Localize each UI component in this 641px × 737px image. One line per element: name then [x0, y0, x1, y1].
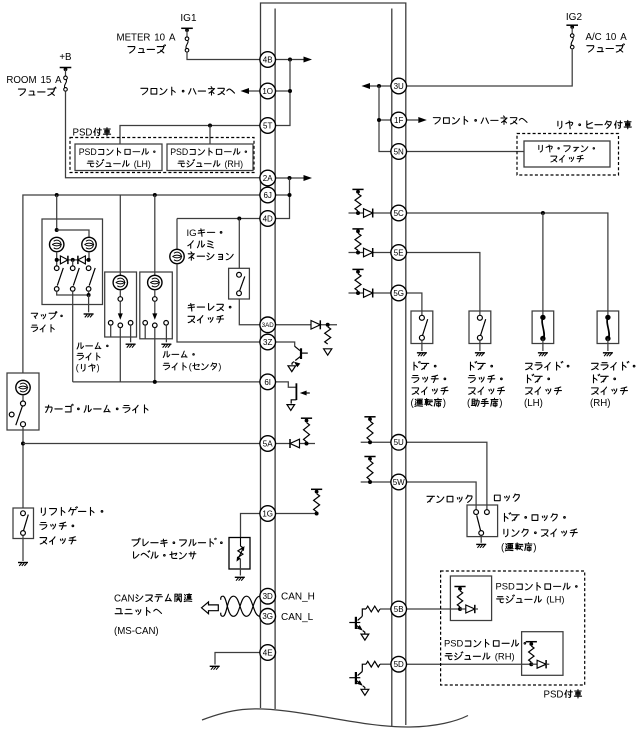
- svg-text:ROOM: ROOM: [6, 75, 36, 86]
- svg-text:1F: 1F: [394, 116, 403, 125]
- svg-text:4B: 4B: [263, 55, 273, 64]
- svg-text:(LH): (LH): [546, 594, 564, 605]
- svg-text:(RH): (RH): [225, 159, 244, 169]
- svg-text:15: 15: [41, 75, 52, 86]
- svg-text:3D: 3D: [263, 592, 273, 601]
- svg-text:(RH): (RH): [495, 651, 515, 662]
- svg-text:5U: 5U: [394, 438, 404, 447]
- svg-text:PSD: PSD: [73, 127, 93, 138]
- svg-text:PSD: PSD: [170, 147, 188, 157]
- svg-text:CAN_L: CAN_L: [281, 612, 314, 623]
- svg-text:4E: 4E: [263, 648, 273, 657]
- svg-text:(: (: [76, 363, 79, 373]
- svg-text:5N: 5N: [394, 147, 404, 156]
- svg-text:6J: 6J: [263, 191, 271, 200]
- svg-text:A: A: [169, 32, 176, 43]
- svg-text:5B: 5B: [394, 605, 404, 614]
- svg-text:6I: 6I: [264, 378, 271, 387]
- svg-text:5D: 5D: [394, 660, 404, 669]
- svg-text:PSD: PSD: [79, 147, 97, 157]
- svg-text:5G: 5G: [393, 289, 404, 298]
- svg-text:(MS-CAN): (MS-CAN): [114, 626, 159, 637]
- svg-text:A/C: A/C: [586, 32, 602, 43]
- svg-text:10: 10: [154, 32, 165, 43]
- svg-text:): ): [499, 398, 502, 409]
- svg-text:1O: 1O: [262, 87, 273, 96]
- svg-text:(LH): (LH): [524, 398, 543, 409]
- svg-text:5C: 5C: [394, 209, 404, 218]
- svg-text:A: A: [620, 32, 627, 43]
- svg-text:CAN_H: CAN_H: [281, 591, 315, 602]
- svg-text:3AD: 3AD: [262, 322, 275, 329]
- svg-text:3Z: 3Z: [263, 338, 272, 347]
- svg-text:3U: 3U: [394, 82, 404, 91]
- svg-text:5A: 5A: [263, 439, 273, 448]
- svg-text:CAN: CAN: [114, 593, 134, 604]
- svg-text:): ): [533, 543, 536, 554]
- svg-text:+B: +B: [59, 52, 71, 63]
- svg-text:2A: 2A: [263, 174, 273, 183]
- svg-text:5W: 5W: [393, 478, 405, 487]
- svg-text:PSD: PSD: [496, 581, 516, 592]
- svg-text:5E: 5E: [394, 248, 404, 257]
- svg-text:4D: 4D: [263, 214, 273, 223]
- svg-text:1G: 1G: [262, 509, 273, 518]
- svg-text:): ): [97, 363, 100, 373]
- svg-text:(RH): (RH): [590, 398, 610, 409]
- svg-text:): ): [443, 398, 446, 409]
- svg-text:5T: 5T: [263, 121, 272, 130]
- svg-text:): ): [218, 362, 221, 372]
- svg-text:IG2: IG2: [566, 12, 583, 23]
- svg-text:PSD: PSD: [544, 689, 564, 700]
- svg-text:(LH): (LH): [134, 159, 151, 169]
- svg-text:A: A: [55, 75, 62, 86]
- svg-text:IG1: IG1: [180, 13, 197, 24]
- svg-text:10: 10: [606, 32, 617, 43]
- svg-text:3G: 3G: [262, 612, 273, 621]
- svg-text:METER: METER: [117, 32, 151, 43]
- svg-text:IG: IG: [187, 228, 197, 239]
- svg-text:PSD: PSD: [444, 638, 464, 649]
- svg-text:(: (: [189, 362, 192, 372]
